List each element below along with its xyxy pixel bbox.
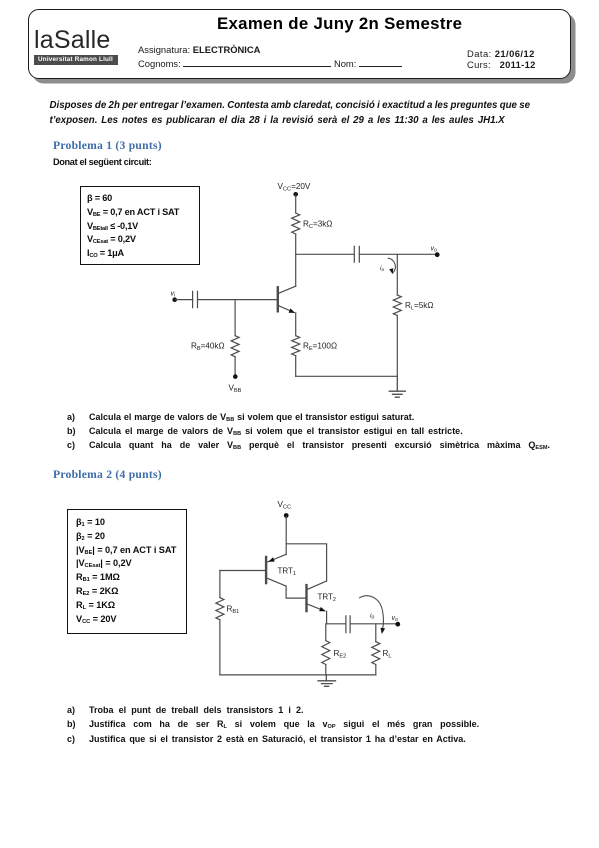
node vo dot <box>435 252 440 257</box>
svg-text:TRT1: TRT1 <box>278 567 297 578</box>
svg-text:io: io <box>370 613 375 621</box>
cognoms / nom line <box>138 58 402 69</box>
wire RL to bottom <box>396 316 398 377</box>
label vo <box>431 246 438 254</box>
node Vcc dot (circuit 2) <box>284 513 289 518</box>
svg-text:TRT2: TRT2 <box>318 593 337 604</box>
label VBB <box>229 384 242 394</box>
wire RE2 to bottom <box>325 665 327 675</box>
resistor RL (circuit 2) <box>372 642 380 665</box>
resistor RE2 <box>322 641 330 665</box>
wire RE2 branch <box>325 624 327 641</box>
intro paragraph <box>50 100 531 111</box>
wire RE to bottom <box>295 356 297 377</box>
node Vcc dot <box>293 192 298 197</box>
wire vo branch down to RL (circuit 2) <box>375 624 377 642</box>
wire base junction to RB <box>234 300 236 336</box>
wire bottom <box>296 375 398 377</box>
label RE value <box>303 342 337 352</box>
wire capacitor to vo <box>359 253 437 255</box>
question P2 a <box>67 705 303 715</box>
wire emitter node to capacitor <box>327 623 346 625</box>
svg-text:vo: vo <box>392 615 399 623</box>
wire bottom (circuit 2) <box>220 674 376 676</box>
wire Vcc down <box>285 517 287 555</box>
parameter box problem 2 <box>67 509 187 634</box>
wire TRT2 emitter down <box>326 611 328 624</box>
resistor RL <box>393 295 401 316</box>
capacitor C2 <box>354 246 359 262</box>
transistor Q1 <box>277 287 279 311</box>
label TRT2 <box>318 593 337 604</box>
resistor RC <box>292 213 300 234</box>
wire TRT1 collector to TRT2 base <box>286 586 306 598</box>
wire RB1 top leg <box>219 571 221 598</box>
wire RC to collector node <box>295 234 297 254</box>
node vi dot <box>172 297 177 302</box>
capacitor C (circuit 2) <box>346 616 350 633</box>
assignatura line <box>138 44 260 55</box>
Problema 1 heading <box>53 139 162 152</box>
node vo dot (circuit 2) <box>395 622 400 627</box>
label Vcc (circuit 2) <box>278 500 292 510</box>
wire TRT1 base to RB1 <box>220 570 266 572</box>
laSalle logo text <box>34 26 110 55</box>
resistor RE <box>292 336 300 356</box>
label TRT1 <box>278 567 297 578</box>
question P2 c <box>67 734 466 744</box>
question P1 a <box>67 412 414 422</box>
label vi <box>171 291 177 299</box>
label vo (circuit 2) <box>392 615 399 623</box>
svg-text:RE2: RE2 <box>334 649 347 659</box>
ground (circuit 2) <box>318 675 335 686</box>
wire RB to VBB <box>234 357 236 375</box>
wire collector vertical <box>295 254 297 286</box>
question P1 c <box>67 440 550 450</box>
title <box>217 14 462 34</box>
svg-text:RL: RL <box>383 649 392 659</box>
wire C1 to base <box>198 299 278 301</box>
wire emitter vertical <box>295 313 297 336</box>
svg-text:VCC: VCC <box>278 500 292 510</box>
data line <box>467 48 535 59</box>
question P2 b <box>67 719 479 729</box>
resistor RB <box>231 336 239 357</box>
svg-text:RB1: RB1 <box>227 605 240 615</box>
label io (circuit 2) <box>370 613 375 621</box>
laSalle logo bar <box>34 55 118 65</box>
parameter box problem 1 <box>80 186 200 265</box>
resistor RB1 <box>216 598 224 620</box>
label iL <box>380 265 384 273</box>
capacitor C1 <box>193 291 198 307</box>
Donat line <box>53 157 151 167</box>
label RB value <box>191 342 225 352</box>
question P1 b <box>67 426 463 436</box>
wire top rail to TRT2 collector <box>286 544 326 581</box>
wire vi to C1 <box>176 299 193 301</box>
label RL value <box>405 301 433 311</box>
node VBB dot <box>233 374 238 379</box>
current arrow io (circuit 2) <box>360 596 384 632</box>
label RB1 <box>227 605 240 615</box>
header rounded box <box>28 9 571 79</box>
current arrow iL <box>388 258 395 273</box>
wire collector to capacitor <box>296 253 355 255</box>
wire RB1 to bottom <box>219 620 221 675</box>
wire capacitor to vo (circuit 2) <box>350 623 397 625</box>
wire RL to bottom (circuit 2) <box>375 665 377 675</box>
label RC value <box>303 220 332 230</box>
curs line <box>467 59 536 70</box>
wire vo branch down to RL <box>396 254 398 295</box>
ground <box>389 376 405 397</box>
wire Vcc to RC <box>295 195 297 213</box>
Problema 2 heading <box>53 468 162 481</box>
transistor TRT2 (NPN) <box>305 585 307 611</box>
label RE2 <box>334 649 347 659</box>
label RL (circuit 2) <box>383 649 392 659</box>
label Vcc=20V <box>278 182 311 192</box>
transistor TRT1 (PNP) <box>265 557 267 583</box>
